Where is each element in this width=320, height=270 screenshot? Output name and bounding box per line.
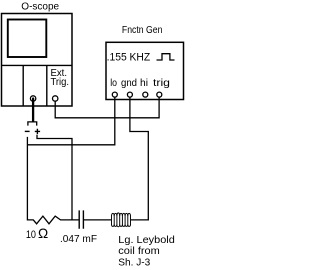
svg-text:Lg. Leybold: Lg. Leybold: [118, 235, 175, 246]
svg-text:trig: trig: [153, 78, 170, 89]
svg-text:gnd: gnd: [121, 78, 137, 89]
svg-text:Sh. J-3: Sh. J-3: [118, 258, 150, 269]
svg-text:lo: lo: [110, 78, 117, 89]
svg-text:.047 mF: .047 mF: [60, 234, 97, 245]
svg-text:coil from: coil from: [118, 246, 160, 257]
svg-text:Trig.: Trig.: [51, 77, 70, 88]
svg-text:Fnctn Gen: Fnctn Gen: [122, 25, 162, 36]
svg-text:.155 KHZ: .155 KHZ: [107, 51, 151, 63]
svg-text:10: 10: [26, 229, 36, 241]
svg-text:hi: hi: [140, 78, 148, 89]
svg-text:O-scope: O-scope: [21, 2, 59, 13]
svg-text:Ω: Ω: [38, 225, 48, 241]
